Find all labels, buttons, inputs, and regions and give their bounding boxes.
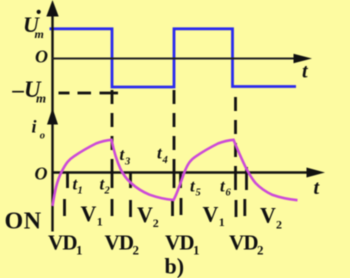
svg-text:6: 6 <box>226 188 232 199</box>
svg-text:V: V <box>137 202 153 227</box>
svg-text:5: 5 <box>196 188 201 199</box>
svg-text:2: 2 <box>104 186 111 197</box>
svg-text:O: O <box>35 164 48 184</box>
svg-text:1: 1 <box>78 186 83 197</box>
svg-text:1: 1 <box>193 242 200 257</box>
svg-text:o: o <box>40 131 45 142</box>
svg-text:V: V <box>81 201 97 226</box>
svg-text:2: 2 <box>153 216 159 230</box>
svg-text:VD: VD <box>229 230 258 254</box>
svg-text:1: 1 <box>219 215 225 229</box>
svg-text:1: 1 <box>76 242 83 257</box>
svg-text:V: V <box>203 202 219 227</box>
svg-text:1: 1 <box>97 215 103 229</box>
svg-text:VD: VD <box>48 230 77 254</box>
svg-text:O: O <box>35 47 48 67</box>
svg-text:4: 4 <box>162 155 168 166</box>
svg-text:i: i <box>32 117 37 137</box>
svg-text:2: 2 <box>133 242 140 257</box>
svg-text:VD: VD <box>165 230 194 254</box>
svg-text:m: m <box>36 91 46 106</box>
svg-text:b): b) <box>165 254 185 278</box>
svg-text:m: m <box>35 27 44 41</box>
svg-text:2: 2 <box>257 242 264 257</box>
svg-text:VD: VD <box>105 230 134 254</box>
svg-text:3: 3 <box>124 157 130 168</box>
svg-text:ON: ON <box>5 208 42 234</box>
svg-text:2: 2 <box>276 218 282 232</box>
svg-text:V: V <box>260 203 276 228</box>
